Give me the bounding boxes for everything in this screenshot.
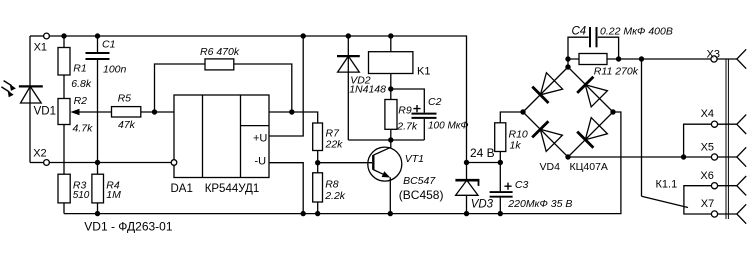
wire K1.1 pole [641, 59, 643, 196]
svg-text:X7: X7 [701, 198, 714, 210]
contact K1.1 blade [642, 196, 689, 207]
node X4 X5 [681, 154, 686, 159]
svg-text:C1: C1 [102, 39, 115, 51]
wire X2 line [30, 162, 44, 164]
node rail R8 [315, 211, 320, 216]
node output R6 [289, 109, 294, 114]
wire top rail [49, 36, 467, 163]
wire bridge bottom to X5 [568, 156, 711, 158]
wire bridge top riser [567, 59, 569, 67]
resistor R5 [112, 107, 175, 117]
svg-text:1k: 1k [510, 140, 522, 152]
wire X4 pin [718, 123, 737, 125]
wire X7 pin [718, 213, 737, 215]
svg-text:VD1 - ФД263-01: VD1 - ФД263-01 [84, 219, 173, 233]
bridge rectifier VD4 edges [523, 67, 613, 157]
svg-text:X5: X5 [701, 142, 714, 154]
node top rail K1 [388, 33, 393, 38]
node bridge left [520, 109, 525, 114]
svg-text:X2: X2 [33, 148, 46, 160]
terminal X2 [44, 160, 50, 166]
svg-text:100n: 100n [103, 64, 127, 76]
wire R6 feedback loop [155, 64, 292, 112]
svg-text:220МкФ 35 В: 220МкФ 35 В [507, 198, 572, 210]
terminal X7 [711, 211, 717, 217]
svg-text:VD1: VD1 [34, 106, 56, 118]
terminal X6 [711, 183, 717, 189]
node collector net [388, 137, 393, 142]
resistor R1 [58, 36, 70, 99]
node top rail C1 [95, 33, 100, 38]
svg-text:DA1: DA1 [171, 183, 193, 195]
node bridge right [610, 109, 615, 114]
resistor R9 [385, 89, 397, 140]
svg-text:C2: C2 [428, 96, 442, 108]
wire X6 pin [718, 185, 737, 187]
svg-text:100 МкФ: 100 МкФ [428, 120, 469, 131]
node 24V corner [464, 160, 469, 165]
svg-text:КЦ407А: КЦ407А [570, 161, 608, 173]
terminal X3 [711, 56, 717, 62]
bridge diode lower-left [532, 121, 562, 151]
svg-text:4.7k: 4.7k [73, 123, 94, 135]
svg-text:C3: C3 [515, 179, 529, 191]
node top rail R1 [61, 33, 66, 38]
svg-text:R6 470k: R6 470k [200, 46, 240, 58]
diode VD2 [337, 36, 360, 140]
svg-text:24 В: 24 В [470, 146, 495, 160]
wire X3 line [568, 58, 711, 60]
svg-text:R1: R1 [73, 63, 86, 75]
svg-text:КР544УД1: КР544УД1 [205, 183, 260, 195]
wire opamp output to R7 [269, 112, 318, 123]
svg-text:R11 270k: R11 270k [594, 66, 639, 78]
node rail -U [301, 211, 306, 216]
wire +U supply riser [269, 36, 303, 136]
wire base [318, 162, 372, 164]
wire X6 X7 contact side [684, 186, 711, 214]
resistor R7 [313, 123, 323, 163]
svg-text:X4: X4 [701, 108, 714, 120]
connector pin X7 [737, 204, 746, 223]
node K1 R9 C2 [388, 86, 393, 91]
svg-text:VT1: VT1 [405, 153, 424, 165]
svg-text:-U: -U [255, 156, 267, 168]
relay coil K1 [369, 36, 413, 89]
node noninverting input R6 [152, 109, 157, 114]
node R7 R8 base [315, 160, 320, 165]
svg-text:47k: 47k [118, 119, 136, 131]
svg-text:X1: X1 [34, 41, 47, 53]
resistor R8 [313, 163, 323, 214]
wire 24V node [467, 162, 501, 164]
node rail C3 [498, 211, 503, 216]
terminal X5 [711, 154, 717, 160]
op-amp DA1 [171, 95, 269, 178]
node X2 line C1 R4 [95, 160, 100, 165]
wire top rail left to X1 [30, 35, 44, 37]
zener diode VD3 [455, 163, 479, 214]
wire X5 pin [718, 156, 737, 158]
node bridge top [565, 64, 570, 69]
svg-text:2.7k: 2.7k [396, 120, 418, 132]
potentiometer R2 [58, 99, 112, 175]
svg-text:X6: X6 [700, 170, 713, 182]
connector pin X5 [737, 147, 746, 166]
resistor R3 [58, 174, 70, 213]
wire bottom rail [64, 112, 621, 214]
wire X2 to inverting input [49, 162, 171, 164]
connector pin X3 [737, 49, 746, 68]
svg-text:1N4148: 1N4148 [349, 84, 386, 96]
connector pin X6 [737, 176, 746, 195]
resistor R11 [579, 54, 607, 65]
svg-text:0.22 МкФ 400В: 0.22 МкФ 400В [600, 25, 673, 37]
svg-text:R9: R9 [398, 105, 412, 117]
bridge diode upper-left [532, 73, 562, 103]
svg-text:C4: C4 [572, 25, 587, 37]
node top rail VD2 [346, 33, 351, 38]
svg-text:22k: 22k [325, 139, 344, 151]
svg-text:R8: R8 [325, 179, 339, 191]
wire -U to ground [269, 163, 303, 214]
svg-text:(BC458): (BC458) [399, 188, 444, 202]
connector pin X4 [737, 115, 746, 134]
wire flyback net [348, 139, 424, 141]
node rail VD3 [464, 211, 469, 216]
svg-text:+U: +U [253, 133, 267, 145]
svg-text:VD4: VD4 [540, 161, 561, 173]
bridge diode upper-right [577, 77, 607, 107]
svg-text:1M: 1M [106, 189, 121, 201]
svg-text:6.8k: 6.8k [71, 78, 92, 90]
node rail R4 [95, 211, 100, 216]
svg-text:К1.1: К1.1 [656, 179, 678, 191]
node C4 right [616, 56, 621, 61]
photodiode VD1 [1, 81, 42, 103]
capacitor C4 [568, 27, 619, 59]
svg-text:R2: R2 [74, 95, 88, 107]
capacitor C1 [86, 36, 110, 163]
resistor R4 [92, 163, 104, 214]
wire X4 branch [684, 124, 712, 157]
node bridge bottom [565, 154, 570, 159]
node K1.1 feed [639, 56, 644, 61]
node R11 left [565, 56, 570, 61]
svg-text:2.2k: 2.2k [324, 190, 346, 202]
capacitor C2 [391, 89, 437, 140]
wire X3 pin [717, 58, 737, 60]
wire left vertical X1 to X2 line [29, 36, 31, 163]
capacitor C3 [490, 163, 513, 214]
svg-text:K1: K1 [417, 66, 430, 78]
connector boundary lines [726, 59, 728, 219]
resistor R10 [495, 112, 523, 163]
svg-text:R5: R5 [118, 93, 132, 105]
svg-text:BC547: BC547 [403, 175, 436, 187]
node rail emitter [388, 211, 393, 216]
svg-text:VD3: VD3 [471, 198, 494, 210]
resistor R6 [205, 59, 234, 70]
svg-text:510: 510 [73, 190, 90, 201]
terminal X1 [44, 33, 50, 39]
bridge diode lower-right [577, 118, 607, 148]
node 24V R10 C3 [498, 160, 503, 165]
transistor VT1 [368, 140, 402, 214]
node top rail opamp supply [301, 33, 306, 38]
terminal X4 [711, 121, 717, 127]
